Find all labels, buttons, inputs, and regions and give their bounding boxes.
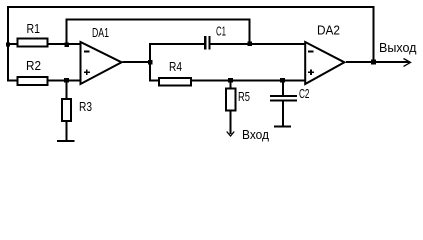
svg-text:R1: R1 — [27, 22, 41, 36]
svg-text:Вход: Вход — [242, 128, 270, 142]
svg-text:C2: C2 — [299, 87, 310, 101]
svg-text:R2: R2 — [26, 59, 41, 73]
svg-text:Выход: Выход — [379, 41, 417, 55]
svg-text:R3: R3 — [79, 100, 92, 114]
svg-text:R4: R4 — [169, 60, 182, 74]
svg-text:R5: R5 — [238, 90, 250, 104]
svg-text:DA2: DA2 — [317, 23, 340, 37]
svg-text:C1: C1 — [216, 24, 226, 38]
svg-text:DA1: DA1 — [92, 26, 109, 40]
